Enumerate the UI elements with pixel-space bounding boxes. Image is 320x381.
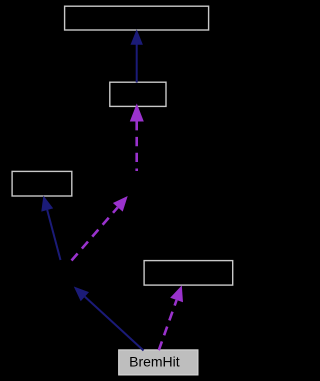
edge: solid inheritance arrow, up-left to left box (41, 196, 60, 261)
edge: dashed usage arrow, BremHit up-right to right box (159, 285, 183, 350)
edge: dashed usage arrow, hidden node up to middle box (130, 104, 144, 172)
edge: solid inheritance arrow, BremHit up-left (74, 287, 144, 351)
edge: solid inheritance arrow, middle box to top box (131, 29, 143, 82)
svg-text:BremHit: BremHit (129, 353, 180, 369)
node BremHit (current class, filled) (119, 350, 198, 375)
node: right class box (144, 261, 233, 286)
edge: dashed usage arrow, diagonal up-right (72, 196, 128, 261)
node: second-level class box (110, 82, 166, 106)
node: left class box (12, 171, 72, 196)
node: top base-class box (65, 6, 209, 30)
